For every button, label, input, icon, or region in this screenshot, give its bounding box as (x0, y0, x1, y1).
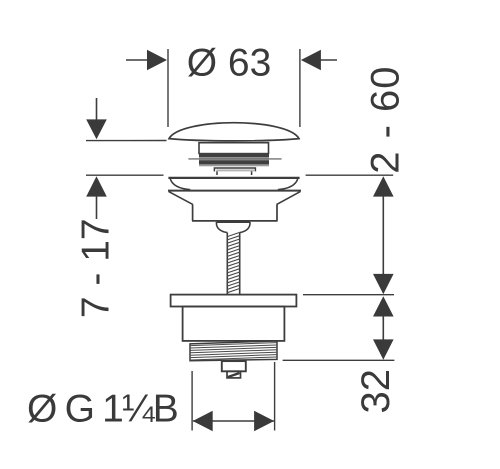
gasket whisker line (188, 158, 281, 160)
reference line at basin level (right) (306, 174, 394, 176)
neck below cap (199, 143, 269, 155)
rubber gasket dark band 2 (199, 160, 269, 164)
bottom stub (222, 361, 246, 371)
threaded rod (227, 232, 239, 294)
svg-text:Ø 63: Ø 63 (187, 42, 272, 85)
lower flange plate (171, 295, 297, 307)
reference line at basin level (left) (86, 174, 164, 176)
stub tip with thread mark (227, 371, 241, 378)
svg-text:2 - 60: 2 - 60 (364, 65, 408, 173)
thread width dimension line with arrows (193, 411, 274, 432)
reference line B (under basin) (303, 294, 394, 296)
extension line left of D63 (167, 49, 169, 127)
flange top line (168, 177, 299, 179)
flange concave right side (278, 179, 298, 190)
cone left side (169, 192, 193, 205)
cap (dome) of plug (169, 123, 299, 141)
cone right side (277, 192, 301, 205)
seal ring line (168, 190, 301, 192)
svg-text:Ø G 1¼B: Ø G 1¼B (27, 388, 177, 431)
reference line C (thread bottom) (283, 359, 395, 361)
svg-text:7 - 17: 7 - 17 (75, 218, 118, 318)
extension line right of D63 (299, 49, 301, 127)
lower body box (183, 307, 285, 341)
small step foot (217, 171, 252, 175)
up arrow pointing to basin line (86, 176, 107, 219)
bottom dome of upper body (216, 222, 250, 233)
dimension line 32 with arrows (373, 296, 394, 360)
step plate under gasket (214, 168, 255, 171)
arrow right of D63 (301, 50, 337, 71)
svg-text:32: 32 (354, 369, 398, 414)
flange concave left side (170, 179, 190, 190)
gasket gray base band (199, 164, 269, 166)
reference line at cap bottom (left) (86, 140, 167, 142)
upper body box (192, 205, 278, 221)
arrow left of D63 (126, 50, 167, 71)
dimension line 2-60 with arrows (373, 176, 394, 294)
rubber gasket dark band 1 (199, 153, 269, 158)
extension line right of thread dim (274, 362, 276, 431)
extension line left of thread dim (191, 371, 193, 431)
down arrow pointing to cap bottom line (86, 98, 107, 139)
threaded section (190, 341, 277, 361)
